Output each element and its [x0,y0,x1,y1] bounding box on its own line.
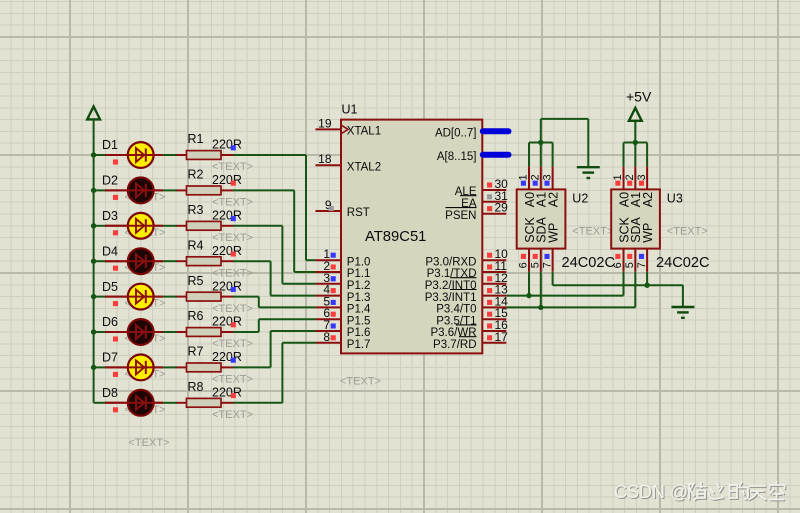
svg-text:6: 6 [612,262,624,268]
svg-text:D2: D2 [102,174,118,188]
svg-text:P3.6/WR: P3.6/WR [430,327,476,339]
svg-text:P1.1: P1.1 [347,268,371,280]
svg-text:1: 1 [612,174,624,180]
svg-text:P3.2/INT0: P3.2/INT0 [425,280,477,292]
svg-text:D3: D3 [102,209,118,223]
svg-text:P3.3/INT1: P3.3/INT1 [425,292,477,304]
svg-text:220R: 220R [212,138,242,152]
svg-text:R1: R1 [188,132,204,146]
svg-text:<TEXT>: <TEXT> [212,409,253,421]
svg-text:AT89C51: AT89C51 [365,229,426,245]
svg-text:220R: 220R [212,386,242,400]
svg-text:D5: D5 [102,280,118,294]
svg-text:220R: 220R [212,244,242,258]
svg-text:3: 3 [541,174,553,180]
svg-text:19: 19 [318,116,332,130]
svg-text:24C02C: 24C02C [562,255,616,271]
svg-text:220R: 220R [212,279,242,293]
svg-text:18: 18 [318,152,332,166]
svg-text:A2: A2 [546,192,560,207]
svg-text:ALE: ALE [455,186,477,198]
svg-text:+5V: +5V [626,88,652,104]
svg-text:U2: U2 [572,192,588,206]
svg-text:EA: EA [461,198,477,210]
svg-text:WP: WP [546,223,560,243]
svg-text:P1.7: P1.7 [347,339,371,351]
svg-text:U1: U1 [342,103,358,117]
svg-text:R8: R8 [188,380,204,394]
svg-text:17: 17 [495,330,509,344]
svg-text:1: 1 [518,174,530,180]
svg-text:2: 2 [530,174,542,180]
svg-text:R4: R4 [188,238,204,252]
svg-text:P3.5/T1: P3.5/T1 [436,315,476,327]
svg-text:D6: D6 [102,315,118,329]
svg-text:P3.7/RD: P3.7/RD [433,339,476,351]
svg-text:U3: U3 [667,192,683,206]
svg-text:AD[0..7]: AD[0..7] [435,127,477,139]
svg-text:<TEXT>: <TEXT> [129,437,170,449]
svg-text:3: 3 [636,174,648,180]
svg-text:D7: D7 [102,351,118,365]
svg-text:D4: D4 [102,244,118,258]
svg-text:P3.0/RXD: P3.0/RXD [425,256,476,268]
svg-text:WP: WP [641,223,655,243]
svg-text:<TEXT>: <TEXT> [212,267,253,279]
svg-text:CSDN @: CSDN @ [614,482,688,502]
svg-text:2: 2 [624,174,636,180]
svg-text:<TEXT>: <TEXT> [212,374,253,386]
svg-text:5: 5 [624,262,636,268]
svg-text:R3: R3 [188,203,204,217]
svg-text:<TEXT>: <TEXT> [667,225,708,237]
svg-text:<TEXT>: <TEXT> [340,376,381,388]
svg-text:220R: 220R [212,315,242,329]
svg-text:D8: D8 [102,386,118,400]
svg-text:6: 6 [518,262,530,268]
svg-text:A2: A2 [641,192,655,207]
svg-text:<TEXT>: <TEXT> [212,232,253,244]
svg-text:<TEXT>: <TEXT> [212,338,253,350]
svg-text:7: 7 [636,262,648,268]
svg-text:XTAL2: XTAL2 [347,161,381,173]
svg-text:P1.0: P1.0 [347,256,371,268]
svg-text:P1.3: P1.3 [347,292,371,304]
svg-text:8: 8 [323,330,330,344]
svg-text:PSEN: PSEN [445,210,476,222]
svg-text:<TEXT>: <TEXT> [572,225,613,237]
svg-text:5: 5 [530,262,542,268]
svg-text:24C02C: 24C02C [656,255,710,271]
svg-text:<TEXT>: <TEXT> [212,161,253,173]
svg-text:RST: RST [347,207,370,219]
svg-text:7: 7 [541,262,553,268]
svg-text:R6: R6 [188,309,204,323]
svg-text:<TEXT>: <TEXT> [212,197,253,209]
svg-text:220R: 220R [212,350,242,364]
svg-text:A[8..15]: A[8..15] [437,151,477,163]
svg-text:XTAL1: XTAL1 [347,126,381,138]
svg-text:220R: 220R [212,209,242,223]
svg-text:D1: D1 [102,138,118,152]
svg-text:220R: 220R [212,173,242,187]
svg-text:R5: R5 [188,274,204,288]
svg-text:R7: R7 [188,345,204,359]
svg-text:P3.1/TXD: P3.1/TXD [427,268,477,280]
svg-text:P1.5: P1.5 [347,315,371,327]
svg-text:<TEXT>: <TEXT> [212,303,253,315]
svg-text:P3.4/T0: P3.4/T0 [436,304,476,316]
svg-text:P1.6: P1.6 [347,327,371,339]
svg-text:P1.2: P1.2 [347,280,371,292]
svg-text:R2: R2 [188,168,204,182]
svg-text:P1.4: P1.4 [347,304,371,316]
svg-text:29: 29 [495,201,509,215]
